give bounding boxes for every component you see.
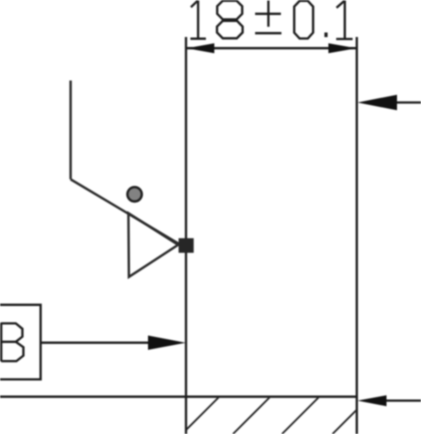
datum frame box B	[0, 305, 41, 380]
leader line top right	[394, 101, 421, 103]
dimension text decimal point	[324, 33, 327, 38]
datum letter B	[1, 323, 23, 362]
dimension text digit 0	[294, 1, 313, 39]
surface symbol gray dot	[127, 187, 141, 201]
surface symbol stem line	[69, 81, 71, 180]
leader arrowhead bottom right	[358, 395, 387, 406]
datum leader line	[41, 342, 152, 344]
dimension arrowhead right	[328, 43, 356, 53]
dimension arrowhead left	[187, 43, 215, 53]
surface symbol diagonal leader	[71, 179, 181, 245]
leader line bottom right	[387, 399, 421, 401]
dimension text digit 1 of "0.1"	[336, 1, 352, 40]
hatch lines	[182, 397, 370, 434]
dimension text digit 1 of "18"	[190, 1, 206, 39]
dimension line	[186, 47, 357, 49]
dimension text plus-minus sign	[255, 1, 281, 34]
surface symbol triangle	[128, 213, 178, 277]
dimension text digit 8 of "18"	[217, 1, 243, 39]
base surface line	[0, 396, 357, 398]
contact square on part edge	[179, 238, 194, 253]
leader arrowhead top right	[358, 95, 398, 111]
part outline right edge / extension line	[356, 37, 358, 434]
part outline left edge / extension line	[185, 37, 187, 434]
datum leader arrowhead	[148, 336, 186, 350]
